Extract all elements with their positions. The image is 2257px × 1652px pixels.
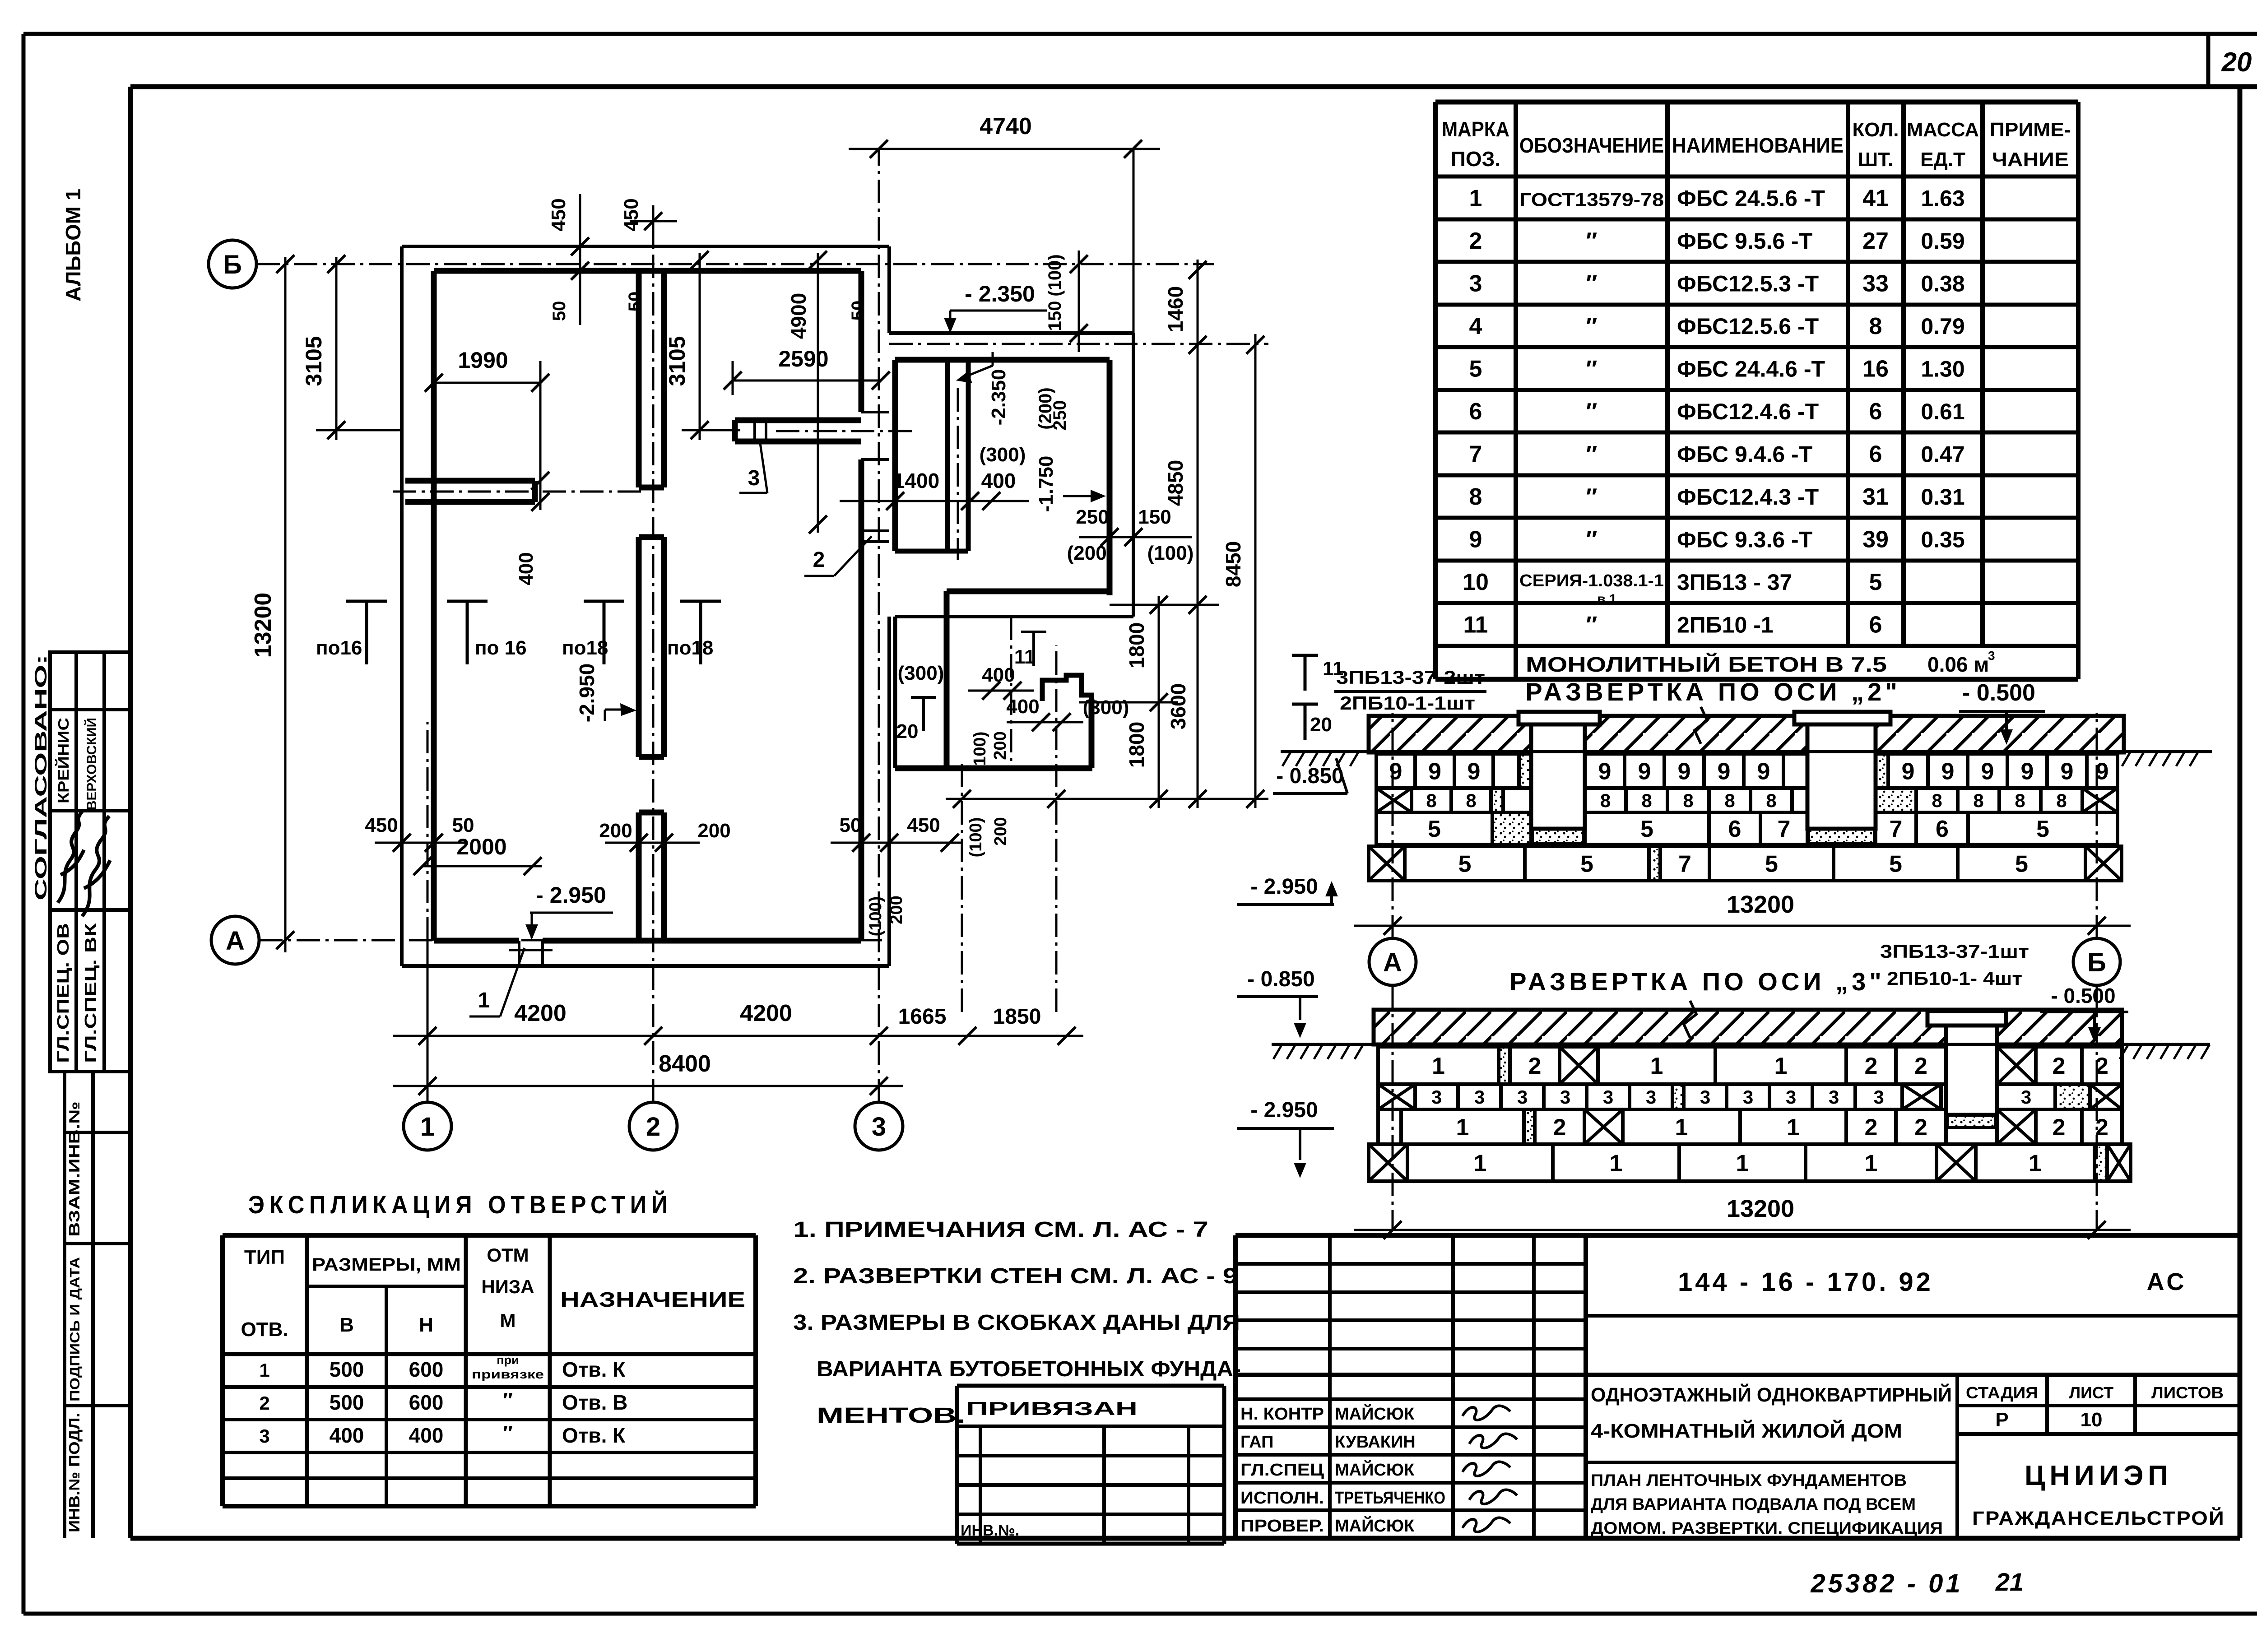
svg-text:8: 8 — [1932, 790, 1942, 811]
svg-text:3: 3 — [748, 466, 760, 490]
svg-text:5: 5 — [1889, 851, 1902, 877]
svg-text:4-КОМНАТНЫЙ ЖИЛОЙ ДОМ: 4-КОМНАТНЫЙ ЖИЛОЙ ДОМ — [1591, 1419, 1902, 1442]
svg-text:ПРИВЯЗАН: ПРИВЯЗАН — [966, 1398, 1138, 1419]
svg-text:1800: 1800 — [1125, 722, 1148, 768]
svg-text:- 2.950: - 2.950 — [536, 882, 606, 908]
svg-text:200: 200 — [991, 817, 1010, 845]
svg-text:-1.750: -1.750 — [1035, 456, 1057, 512]
svg-text:9: 9 — [1981, 759, 1994, 785]
svg-text:НИЗА: НИЗА — [481, 1276, 534, 1297]
svg-text:200: 200 — [599, 820, 632, 842]
svg-text:ФБС12.4.3 -Т: ФБС12.4.3 -Т — [1677, 484, 1819, 510]
svg-text:СОГЛАСОВАНО:: СОГЛАСОВАНО: — [32, 654, 50, 900]
svg-text:ГРАЖДАНСЕЛЬСТРОЙ: ГРАЖДАНСЕЛЬСТРОЙ — [1972, 1507, 2225, 1529]
svg-text:400: 400 — [409, 1424, 444, 1447]
svg-text:3: 3 — [1469, 271, 1482, 297]
svg-text:- 0.850: - 0.850 — [1247, 967, 1314, 991]
svg-text:ГОСТ13579-78: ГОСТ13579-78 — [1519, 189, 1664, 210]
svg-text:2: 2 — [2053, 1053, 2066, 1079]
svg-text:8: 8 — [2056, 790, 2067, 811]
svg-text:3: 3 — [259, 1425, 269, 1447]
svg-text:РАЗВЕРТКА ПО ОСИ „3": РАЗВЕРТКА ПО ОСИ „3" — [1509, 967, 1885, 996]
svg-text:7: 7 — [1890, 816, 1903, 842]
svg-text:4740: 4740 — [980, 113, 1032, 139]
svg-text:6: 6 — [1469, 399, 1482, 425]
svg-text:8: 8 — [1426, 790, 1436, 811]
svg-text:(300): (300) — [1083, 696, 1129, 719]
svg-text:3: 3 — [1431, 1086, 1442, 1108]
svg-text:ГЛ.СПЕЦ: ГЛ.СПЕЦ — [1240, 1461, 1324, 1480]
svg-text:5: 5 — [1469, 356, 1482, 382]
svg-text:1: 1 — [1675, 1114, 1688, 1141]
svg-text:500: 500 — [330, 1391, 364, 1414]
svg-text:200: 200 — [991, 731, 1010, 760]
svg-text:1: 1 — [1865, 1151, 1878, 1177]
svg-text:8: 8 — [1973, 790, 1983, 811]
svg-text:600: 600 — [409, 1358, 444, 1381]
svg-text:″: ″ — [503, 1421, 513, 1445]
svg-text:1: 1 — [420, 1112, 435, 1142]
svg-text:АЛЬБОМ 1: АЛЬБОМ 1 — [61, 189, 85, 302]
svg-text:450: 450 — [907, 814, 940, 836]
svg-text:″: ″ — [503, 1388, 513, 1412]
svg-text:0.47: 0.47 — [1921, 442, 1964, 467]
svg-text:Отв. В: Отв. В — [562, 1391, 627, 1414]
svg-text:А: А — [226, 926, 245, 956]
svg-text:0.38: 0.38 — [1921, 271, 1964, 297]
svg-text:9: 9 — [2061, 759, 2074, 785]
svg-text:6: 6 — [1936, 816, 1949, 842]
svg-text:400: 400 — [1006, 696, 1039, 718]
svg-text:(100): (100) — [971, 732, 989, 772]
svg-text:5: 5 — [1580, 851, 1593, 877]
svg-text:5: 5 — [1428, 816, 1441, 842]
svg-text:КУВАКИН: КУВАКИН — [1335, 1433, 1416, 1452]
svg-text:10: 10 — [1463, 569, 1489, 595]
svg-text:2: 2 — [1914, 1053, 1927, 1079]
svg-text:ТИП: ТИП — [244, 1246, 285, 1268]
svg-text:13200: 13200 — [1727, 1195, 1794, 1222]
svg-text:450: 450 — [620, 198, 642, 231]
svg-text:13200: 13200 — [250, 593, 276, 658]
svg-text:6: 6 — [1728, 816, 1742, 842]
svg-text:Н: Н — [419, 1314, 433, 1336]
svg-text:Б: Б — [2087, 948, 2106, 977]
svg-text:0.79: 0.79 — [1921, 314, 1964, 339]
svg-text:″: ″ — [1586, 527, 1598, 553]
svg-text:АС: АС — [2147, 1268, 2187, 1295]
svg-text:3: 3 — [1829, 1086, 1839, 1108]
svg-text:(100): (100) — [966, 817, 985, 858]
svg-text:450: 450 — [365, 814, 398, 836]
svg-text:ФБС 24.5.6 -Т: ФБС 24.5.6 -Т — [1677, 186, 1825, 211]
svg-text:КРЕЙНИС: КРЕЙНИС — [55, 718, 72, 803]
svg-text:ФБС 9.5.6 -Т: ФБС 9.5.6 -Т — [1677, 228, 1812, 254]
svg-text:ОТМ: ОТМ — [487, 1244, 529, 1266]
svg-text:1: 1 — [2029, 1151, 2042, 1177]
svg-text:0.06 м: 0.06 м — [1927, 653, 1989, 676]
svg-text:20: 20 — [896, 720, 919, 742]
svg-text:2: 2 — [1553, 1114, 1566, 1141]
svg-text:200: 200 — [697, 820, 730, 842]
svg-text:ЭКСПЛИКАЦИЯ ОТВЕРСТИЙ: ЭКСПЛИКАЦИЯ ОТВЕРСТИЙ — [248, 1190, 673, 1219]
svg-text:МАЙСЮК: МАЙСЮК — [1335, 1515, 1415, 1536]
svg-text:0.31: 0.31 — [1921, 484, 1964, 510]
svg-text:ЧАНИЕ: ЧАНИЕ — [1992, 148, 2069, 171]
svg-text:50: 50 — [840, 814, 862, 836]
svg-text:1: 1 — [1456, 1114, 1469, 1141]
svg-text:1: 1 — [1432, 1053, 1445, 1079]
svg-text:(100): (100) — [866, 896, 885, 937]
svg-text:2: 2 — [2053, 1114, 2066, 1141]
svg-text:-2.950: -2.950 — [575, 664, 599, 722]
svg-text:9: 9 — [1389, 759, 1402, 785]
svg-text:144 - 16 - 170. 92: 144 - 16 - 170. 92 — [1678, 1267, 1933, 1297]
svg-text:ИНВ.№.: ИНВ.№. — [961, 1522, 1019, 1539]
svg-text:1: 1 — [1650, 1053, 1663, 1079]
svg-text:НАИМЕНОВАНИЕ: НАИМЕНОВАНИЕ — [1672, 134, 1844, 157]
svg-text:″: ″ — [1586, 612, 1598, 638]
svg-text:НАЗНАЧЕНИЕ: НАЗНАЧЕНИЕ — [560, 1288, 745, 1311]
svg-text:9: 9 — [1678, 759, 1691, 785]
svg-text:1: 1 — [259, 1360, 269, 1381]
svg-text:5: 5 — [2036, 816, 2049, 842]
svg-text:6: 6 — [1869, 612, 1882, 638]
svg-text:- 0.500: - 0.500 — [1962, 680, 2035, 706]
svg-text:″: ″ — [1586, 313, 1598, 339]
svg-text:привязке: привязке — [472, 1368, 544, 1381]
svg-text:(200): (200) — [1067, 542, 1114, 564]
svg-text:8: 8 — [1724, 790, 1735, 811]
svg-text:2: 2 — [259, 1392, 269, 1414]
svg-text:5: 5 — [1765, 851, 1778, 877]
svg-text:- 2.350: - 2.350 — [965, 281, 1035, 306]
svg-text:3ПБ13-37-2шт: 3ПБ13-37-2шт — [1336, 667, 1485, 688]
svg-text:МАЙСЮК: МАЙСЮК — [1335, 1403, 1415, 1424]
svg-text:1. ПРИМЕЧАНИЯ СМ. Л. АС - 7: 1. ПРИМЕЧАНИЯ СМ. Л. АС - 7 — [793, 1218, 1208, 1242]
svg-text:5: 5 — [1640, 816, 1653, 842]
svg-text:1: 1 — [1610, 1151, 1623, 1177]
svg-text:3: 3 — [1786, 1086, 1796, 1108]
svg-text:3ПБ13-37-1шт: 3ПБ13-37-1шт — [1880, 941, 2029, 962]
svg-text:4900: 4900 — [787, 293, 810, 339]
svg-text:9: 9 — [1469, 527, 1482, 553]
svg-text:1800: 1800 — [1125, 622, 1148, 668]
svg-text:5: 5 — [2015, 851, 2028, 877]
svg-text:0.61: 0.61 — [1921, 399, 1964, 424]
svg-text:1: 1 — [478, 988, 490, 1012]
svg-text:400: 400 — [981, 469, 1016, 492]
svg-text:″: ″ — [1586, 271, 1598, 297]
svg-text:МАРКА: МАРКА — [1442, 117, 1509, 141]
svg-text:при: при — [497, 1353, 519, 1367]
svg-text:(100): (100) — [1045, 254, 1065, 296]
svg-text:39: 39 — [1862, 527, 1889, 553]
svg-text:50: 50 — [848, 301, 868, 321]
svg-text:3: 3 — [1700, 1086, 1710, 1108]
svg-text:Отв. К: Отв. К — [562, 1358, 626, 1381]
svg-text:ФБС 9.4.6 -Т: ФБС 9.4.6 -Т — [1677, 442, 1812, 467]
svg-text:8: 8 — [2015, 790, 2025, 811]
svg-text:3105: 3105 — [301, 336, 326, 386]
svg-text:ЕД.Т: ЕД.Т — [1920, 148, 1965, 171]
svg-text:1: 1 — [1736, 1151, 1749, 1177]
svg-text:11: 11 — [1463, 612, 1488, 638]
svg-text:9: 9 — [1598, 759, 1611, 785]
svg-text:МОНОЛИТНЫЙ БЕТОН В 7.5: МОНОЛИТНЫЙ БЕТОН В 7.5 — [1526, 653, 1887, 676]
svg-text:3600: 3600 — [1166, 683, 1190, 729]
svg-text:9: 9 — [1468, 759, 1481, 785]
svg-text:10: 10 — [2081, 1409, 2103, 1431]
svg-text:150: 150 — [1138, 506, 1171, 528]
svg-text:0.59: 0.59 — [1921, 228, 1964, 254]
svg-text:3: 3 — [1743, 1086, 1753, 1108]
svg-text:3: 3 — [872, 1112, 886, 1142]
svg-text:ГАП: ГАП — [1240, 1433, 1273, 1452]
svg-text:2ПБ10-1- 4шт: 2ПБ10-1- 4шт — [1887, 968, 2022, 989]
svg-text:″: ″ — [1586, 399, 1598, 425]
svg-text:3: 3 — [1873, 1086, 1884, 1108]
svg-text:ПРОВЕР.: ПРОВЕР. — [1240, 1517, 1324, 1536]
svg-text:ИСПОЛН.: ИСПОЛН. — [1240, 1489, 1324, 1508]
svg-text:″: ″ — [1586, 356, 1598, 382]
svg-text:КОЛ.: КОЛ. — [1852, 119, 1899, 141]
svg-text:2ПБ10-1-1шт: 2ПБ10-1-1шт — [1340, 692, 1475, 714]
svg-text:ФБС12.5.6 -Т: ФБС12.5.6 -Т — [1677, 314, 1819, 339]
svg-text:8: 8 — [1683, 790, 1693, 811]
svg-text:по18: по18 — [562, 637, 608, 659]
svg-text:400: 400 — [515, 552, 537, 585]
svg-text:9: 9 — [1428, 759, 1441, 785]
svg-text:1.63: 1.63 — [1921, 186, 1964, 211]
svg-text:3: 3 — [1474, 1086, 1485, 1108]
svg-text:Н. КОНТР: Н. КОНТР — [1240, 1405, 1324, 1424]
svg-text:11: 11 — [1014, 646, 1036, 668]
svg-text:8400: 8400 — [659, 1051, 711, 1077]
svg-text:- 2.950: - 2.950 — [1250, 875, 1318, 899]
svg-text:ЦНИИЭП: ЦНИИЭП — [2025, 1460, 2173, 1491]
svg-text:СЕРИЯ-1.038.1-1: СЕРИЯ-1.038.1-1 — [1519, 571, 1664, 590]
svg-text:2: 2 — [1914, 1114, 1927, 1141]
svg-text:4200: 4200 — [514, 1000, 567, 1026]
svg-text:5: 5 — [1458, 851, 1472, 877]
svg-text:250: 250 — [1050, 400, 1070, 431]
svg-text:РАЗМЕРЫ, ММ: РАЗМЕРЫ, ММ — [312, 1255, 461, 1275]
svg-text:21: 21 — [1995, 1568, 2024, 1596]
svg-text:33: 33 — [1862, 271, 1889, 297]
svg-text:по 16: по 16 — [475, 637, 527, 659]
svg-text:СТАДИЯ: СТАДИЯ — [1966, 1383, 2038, 1402]
svg-text:9: 9 — [1941, 759, 1955, 785]
svg-text:9: 9 — [1638, 759, 1651, 785]
svg-text:3: 3 — [1646, 1086, 1656, 1108]
svg-text:МАССА: МАССА — [1907, 119, 1979, 141]
svg-text:25382 - 01: 25382 - 01 — [1810, 1569, 1963, 1598]
svg-text:2. РАЗВЕРТКИ СТЕН СМ. Л. АС: 2. РАЗВЕРТКИ СТЕН СМ. Л. АС - 9 — [793, 1264, 1238, 1288]
svg-text:2: 2 — [1865, 1053, 1878, 1079]
svg-text:5: 5 — [1869, 569, 1882, 595]
svg-text:2: 2 — [646, 1112, 660, 1142]
svg-text:1850: 1850 — [993, 1005, 1041, 1029]
svg-text:В: В — [339, 1314, 354, 1336]
svg-text:50: 50 — [549, 301, 569, 321]
svg-text:ГЛ.СПЕЦ. ОВ: ГЛ.СПЕЦ. ОВ — [54, 923, 72, 1063]
svg-text:ИНВ.№ ПОДЛ.: ИНВ.№ ПОДЛ. — [66, 1413, 83, 1532]
svg-text:3: 3 — [1603, 1086, 1613, 1108]
svg-text:200: 200 — [887, 896, 906, 924]
svg-text:ПОДПИСЬ И ДАТА: ПОДПИСЬ И ДАТА — [67, 1257, 83, 1401]
svg-text:2000: 2000 — [456, 834, 506, 859]
svg-text:1: 1 — [1787, 1114, 1800, 1141]
svg-text:20: 20 — [1310, 714, 1332, 736]
svg-text:20: 20 — [2221, 47, 2252, 77]
svg-text:11: 11 — [1323, 658, 1344, 680]
svg-text:0.35: 0.35 — [1921, 527, 1964, 552]
svg-text:ФБС 24.4.6 -Т: ФБС 24.4.6 -Т — [1677, 357, 1825, 382]
svg-text:9: 9 — [1902, 759, 1915, 785]
svg-text:16: 16 — [1862, 356, 1889, 382]
svg-text:450: 450 — [548, 198, 570, 231]
svg-text:(100): (100) — [1147, 542, 1194, 564]
svg-text:ДОМОМ. РАЗВЕРТКИ. СПЕЦИФИКАЦИЯ: ДОМОМ. РАЗВЕРТКИ. СПЕЦИФИКАЦИЯ — [1591, 1519, 1943, 1537]
svg-text:ДЛЯ ВАРИАНТА ПОДВАЛА ПОД ВСЕМ: ДЛЯ ВАРИАНТА ПОДВАЛА ПОД ВСЕМ — [1591, 1495, 1916, 1513]
svg-text:-2.350: -2.350 — [988, 369, 1010, 426]
svg-text:3: 3 — [1517, 1086, 1528, 1108]
svg-text:27: 27 — [1862, 228, 1889, 254]
svg-text:8: 8 — [1600, 790, 1611, 811]
svg-text:ФБС 9.3.6 -Т: ФБС 9.3.6 -Т — [1677, 527, 1812, 552]
svg-text:ОДНОЭТАЖНЫЙ ОДНОКВАРТИРНЫЙ: ОДНОЭТАЖНЫЙ ОДНОКВАРТИРНЫЙ — [1591, 1383, 1952, 1406]
svg-text:2ПБ10 -1: 2ПБ10 -1 — [1677, 613, 1774, 638]
svg-text:7: 7 — [1678, 851, 1691, 877]
svg-text:2: 2 — [1469, 228, 1482, 254]
svg-text:ПРИМЕ-: ПРИМЕ- — [1990, 119, 2071, 141]
svg-text:4850: 4850 — [1164, 460, 1187, 506]
svg-text:″: ″ — [1586, 441, 1598, 468]
svg-text:1990: 1990 — [458, 348, 508, 373]
svg-text:2590: 2590 — [778, 346, 828, 371]
svg-text:1665: 1665 — [898, 1005, 947, 1029]
svg-text:МАЙСЮК: МАЙСЮК — [1335, 1459, 1415, 1480]
svg-text:по18: по18 — [667, 637, 713, 659]
svg-text:Р: Р — [1995, 1409, 2008, 1431]
svg-text:Отв. К: Отв. К — [562, 1424, 626, 1447]
svg-text:- 2.950: - 2.950 — [1250, 1098, 1318, 1122]
svg-text:А: А — [1383, 948, 1402, 977]
svg-text:2: 2 — [1528, 1053, 1542, 1079]
svg-text:1: 1 — [1474, 1151, 1487, 1177]
svg-text:2: 2 — [1865, 1114, 1878, 1141]
svg-text:(300): (300) — [898, 662, 944, 684]
svg-text:8: 8 — [1469, 484, 1482, 510]
svg-text:ОТВ.: ОТВ. — [241, 1318, 288, 1341]
svg-text:2: 2 — [813, 548, 825, 572]
svg-text:3105: 3105 — [664, 336, 690, 386]
svg-text:1: 1 — [1469, 186, 1482, 212]
svg-text:Б: Б — [223, 250, 242, 279]
svg-text:ОБОЗНАЧЕНИЕ: ОБОЗНАЧЕНИЕ — [1519, 134, 1664, 157]
svg-text:1: 1 — [1774, 1053, 1788, 1079]
svg-text:ГЛ.СПЕЦ. ВК: ГЛ.СПЕЦ. ВК — [81, 923, 100, 1063]
svg-text:М: М — [500, 1310, 516, 1331]
svg-text:500: 500 — [330, 1358, 364, 1381]
svg-text:3: 3 — [2021, 1086, 2031, 1108]
svg-text:″: ″ — [1586, 484, 1598, 510]
svg-text:ПЛАН ЛЕНТОЧНЫХ ФУНДАМЕНТОВ: ПЛАН ЛЕНТОЧНЫХ ФУНДАМЕНТОВ — [1591, 1471, 1907, 1490]
svg-text:1.30: 1.30 — [1921, 357, 1964, 382]
svg-text:3: 3 — [1988, 649, 1995, 663]
svg-text:3. РАЗМЕРЫ В СКОБКАХ ДАНЫ ДЛЯ: 3. РАЗМЕРЫ В СКОБКАХ ДАНЫ ДЛЯ — [793, 1311, 1240, 1335]
svg-text:1400: 1400 — [893, 469, 939, 492]
svg-text:4200: 4200 — [740, 1000, 792, 1026]
svg-text:1460: 1460 — [1164, 286, 1187, 332]
svg-text:150: 150 — [1045, 301, 1065, 331]
svg-text:9: 9 — [1757, 759, 1770, 785]
svg-text:8: 8 — [1766, 790, 1776, 811]
svg-text:ЛИСТ: ЛИСТ — [2069, 1383, 2113, 1402]
svg-text:(300): (300) — [980, 444, 1026, 466]
svg-text:МЕНТОВ.: МЕНТОВ. — [817, 1404, 966, 1428]
svg-text:31: 31 — [1862, 484, 1889, 510]
svg-text:ВЗАМ.ИНВ.№: ВЗАМ.ИНВ.№ — [66, 1101, 83, 1237]
svg-text:- 0.500: - 0.500 — [2051, 984, 2115, 1007]
svg-text:13200: 13200 — [1727, 891, 1794, 918]
svg-text:8: 8 — [1466, 790, 1476, 811]
svg-text:- 0.850: - 0.850 — [1276, 764, 1343, 788]
svg-text:7: 7 — [1469, 441, 1482, 468]
svg-text:ФБС12.4.6 -Т: ФБС12.4.6 -Т — [1677, 399, 1819, 424]
svg-text:″: ″ — [1586, 228, 1598, 254]
svg-text:9: 9 — [1718, 759, 1731, 785]
svg-text:ЛИСТОВ: ЛИСТОВ — [2151, 1383, 2224, 1402]
svg-text:7: 7 — [1778, 816, 1791, 842]
svg-text:9: 9 — [2021, 759, 2034, 785]
svg-text:6: 6 — [1869, 399, 1882, 425]
svg-text:4: 4 — [1469, 313, 1482, 339]
svg-text:6: 6 — [1869, 441, 1882, 468]
svg-text:ВАРИАНТА БУТОБЕТОННЫХ ФУНДА-: ВАРИАНТА БУТОБЕТОННЫХ ФУНДА- — [817, 1357, 1241, 1381]
svg-text:РАЗВЕРТКА ПО ОСИ „2": РАЗВЕРТКА ПО ОСИ „2" — [1525, 678, 1901, 706]
svg-text:250: 250 — [1076, 506, 1109, 528]
svg-text:ФБС12.5.3 -Т: ФБС12.5.3 -Т — [1677, 271, 1819, 297]
svg-text:8: 8 — [1641, 790, 1652, 811]
svg-text:8450: 8450 — [1221, 541, 1245, 587]
svg-text:ТРЕТЬЯЧЕНКО: ТРЕТЬЯЧЕНКО — [1335, 1489, 1445, 1508]
svg-text:41: 41 — [1862, 186, 1889, 212]
svg-text:в.1: в.1 — [1597, 592, 1616, 607]
svg-text:по16: по16 — [316, 637, 362, 659]
svg-text:400: 400 — [330, 1424, 364, 1447]
svg-text:50: 50 — [452, 814, 474, 836]
svg-text:8: 8 — [1869, 313, 1882, 339]
svg-text:50: 50 — [625, 292, 645, 312]
svg-text:600: 600 — [409, 1391, 444, 1414]
svg-text:ВЕРХОВСКИЙ: ВЕРХОВСКИЙ — [84, 718, 99, 810]
svg-text:3ПБ13 - 37: 3ПБ13 - 37 — [1677, 570, 1792, 595]
svg-text:ШТ.: ШТ. — [1858, 148, 1893, 171]
svg-text:3: 3 — [1560, 1086, 1570, 1108]
svg-text:ПОЗ.: ПОЗ. — [1451, 147, 1500, 171]
